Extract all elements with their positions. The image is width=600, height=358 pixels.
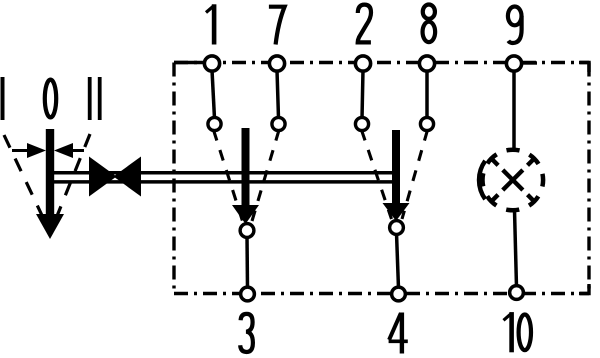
contact below 2 [355, 117, 368, 130]
motion arrow left [12, 143, 46, 158]
wire common contact B to terminal 4 [397, 233, 399, 289]
position label 0 [45, 80, 56, 118]
pin 3 label [240, 314, 253, 352]
wire lamp to terminal 10 [515, 210, 517, 287]
wire terminal 2 to contact [362, 70, 363, 119]
terminal 7 [269, 56, 284, 71]
pin 9 label [508, 7, 522, 44]
terminal 8 [419, 56, 434, 71]
wire terminal 1 to contact [212, 70, 215, 119]
terminal 1 [204, 56, 219, 71]
common contact A [240, 224, 254, 238]
wire terminal 8 to contact [425, 70, 429, 119]
contact path 7 (dashed) [252, 130, 279, 221]
contact below 7 [272, 117, 285, 130]
common contact B [390, 221, 404, 235]
wire terminal 9 to lamp [512, 70, 516, 150]
contact path 8 (dashed) [402, 130, 428, 219]
terminal 3 [241, 287, 255, 301]
actuator shaft (double line) [52, 173, 398, 182]
wire terminal 7 to contact [277, 70, 279, 119]
switch housing outline (dash-dot enclosure) [174, 63, 589, 294]
lever actuator arrow [36, 129, 64, 239]
contact path 2 (dashed) [362, 130, 392, 219]
mechanical coupling (bow-tie) [89, 157, 141, 197]
contact below 8 [420, 117, 433, 130]
terminal 2 [355, 56, 370, 71]
pin 4 label [389, 313, 408, 354]
terminal 9 [506, 56, 521, 71]
pin 10 label [504, 312, 532, 352]
pin 1 label [206, 4, 214, 44]
lamp (illumination) [479, 150, 543, 211]
lever position II dashed line [53, 134, 90, 226]
motion arrow right [54, 143, 84, 158]
position label II [88, 77, 102, 120]
position label I [1, 77, 5, 120]
pin 8 label [423, 5, 436, 43]
contact below 1 [208, 117, 221, 130]
pin 7 label [269, 7, 285, 45]
contact path 1 (dashed) [214, 130, 243, 221]
terminal 10 [510, 286, 524, 300]
wire common contact A to terminal 3 [245, 236, 249, 289]
lever position I dashed line [4, 135, 47, 226]
terminal 4 [392, 287, 406, 301]
actuator arrow switch A [232, 128, 259, 224]
pin 2 label [358, 5, 371, 43]
actuator arrow switch B [383, 130, 410, 221]
